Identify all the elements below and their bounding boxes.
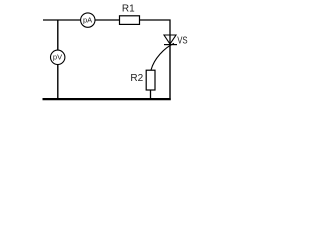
svg-text:pV: pV xyxy=(53,53,62,62)
svg-text:R1: R1 xyxy=(122,3,135,14)
svg-text:pA: pA xyxy=(83,15,92,24)
svg-text:VS: VS xyxy=(177,35,188,46)
svg-text:R2: R2 xyxy=(130,73,143,84)
